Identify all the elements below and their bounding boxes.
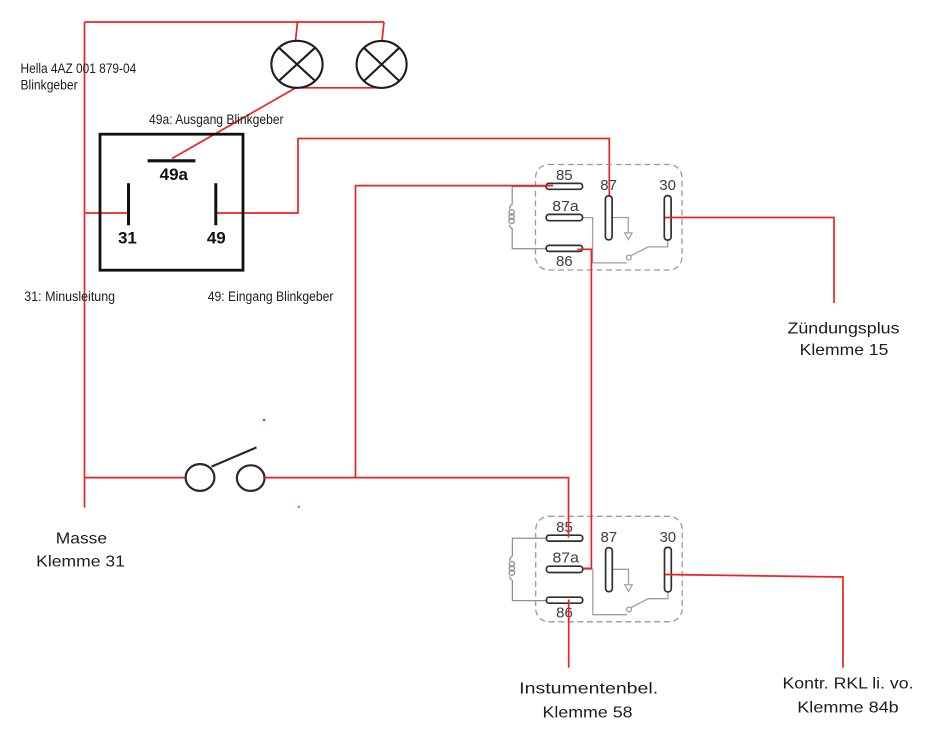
wire terminal 31 to Masse rail	[85, 212, 129, 214]
svg-text:Klemme 58: Klemme 58	[543, 705, 633, 722]
svg-text:30: 30	[659, 529, 676, 546]
relay K2 pin 87 pad	[606, 548, 613, 592]
svg-text:86: 86	[556, 253, 573, 270]
lamp E2	[357, 41, 407, 88]
relay K2 pin 30 pad	[665, 547, 672, 591]
wire Masse rail to switch S1	[85, 477, 187, 479]
relay K2 pin 85 pad	[546, 535, 582, 541]
relay K1 armature arrowhead	[625, 233, 633, 240]
relay K2 pivot contact	[627, 607, 632, 612]
relay K2 wire 87a to pivot	[583, 569, 627, 614]
relay K1 wire 87 to armature arrow	[612, 218, 628, 233]
relay K1 pin 85 pad	[546, 183, 582, 189]
svg-text:Instumentenbel.: Instumentenbel.	[519, 681, 658, 698]
wire relay K2 pin 86 to Klemme 58	[568, 600, 570, 668]
svg-text:30: 30	[659, 177, 676, 194]
svg-text:Masse: Masse	[56, 531, 107, 548]
svg-text:85: 85	[556, 519, 573, 536]
wire relay K2 pin 30 to Klemme 84b	[665, 575, 843, 668]
svg-text:87: 87	[600, 529, 617, 546]
wire switch junction to relay K1 pin 85	[356, 186, 554, 478]
svg-text:49a: 49a	[160, 165, 189, 184]
wire drop to lamp E2	[382, 22, 384, 41]
relay K1 pin 86 pad	[546, 245, 582, 251]
relay K1 switch arm to pin 30	[631, 240, 668, 256]
red artifact dot A	[263, 419, 266, 421]
switch S1	[186, 447, 265, 491]
relay K2 switch arm to pin 30	[631, 592, 668, 608]
terminal bar 31	[127, 183, 130, 225]
svg-text:31: Minusleitung: 31: Minusleitung	[24, 289, 115, 304]
svg-text:Hella 4AZ 001 879-04: Hella 4AZ 001 879-04	[21, 61, 137, 76]
relay K2 dashed body	[536, 516, 683, 622]
relay K1 coil	[509, 187, 546, 249]
svg-text:Blinkgeber: Blinkgeber	[21, 78, 79, 93]
relay K1 pin 87a pad	[546, 214, 582, 220]
wire drop to lamp E1	[296, 22, 298, 41]
relay K2 pin 86 pad	[546, 597, 582, 603]
relay K1 pivot contact	[626, 255, 631, 260]
svg-text:49: Eingang Blinkgeber: 49: Eingang Blinkgeber	[208, 289, 334, 304]
wire lamp bottoms join	[296, 87, 385, 89]
svg-text:31: 31	[118, 229, 137, 248]
relay K2	[509, 516, 682, 622]
relay K2 armature arrowhead	[625, 585, 633, 592]
svg-text:85: 85	[556, 167, 573, 184]
relay K1 pin 30 pad	[664, 196, 671, 240]
wire switch S1 to relay K2 pin 85	[264, 478, 568, 538]
relay K2 pin 87a pad	[546, 566, 582, 572]
svg-text:Klemme 31: Klemme 31	[36, 554, 125, 571]
wire lamp E1 to terminal 49a	[172, 88, 296, 159]
terminal bar 49a	[148, 159, 196, 162]
wire left vertical to Masse	[84, 22, 86, 508]
Blinkgeber box outline	[100, 134, 243, 270]
relay K1	[509, 165, 682, 271]
relay K2 coil	[509, 538, 546, 600]
svg-text:Zündungsplus: Zündungsplus	[788, 321, 900, 338]
svg-text:49a: Ausgang Blinkgeber: 49a: Ausgang Blinkgeber	[149, 112, 284, 127]
svg-text:87a: 87a	[552, 198, 579, 215]
relay K1 pin 87 pad	[605, 196, 612, 240]
wire terminal 49 to relay K1 pin 87	[216, 139, 610, 214]
svg-text:Kontr. RKL li. vo.: Kontr. RKL li. vo.	[783, 676, 914, 693]
wire relay K1 pin 30 to Zuendungsplus	[665, 218, 834, 304]
wire top horizontal feed	[85, 21, 385, 23]
terminal bar 49	[214, 183, 217, 225]
svg-text:Klemme 84b: Klemme 84b	[797, 700, 899, 717]
svg-text:Klemme 15: Klemme 15	[800, 342, 889, 359]
svg-text:87: 87	[600, 177, 617, 194]
lamp E1	[271, 41, 322, 88]
svg-text:87a: 87a	[552, 550, 579, 567]
svg-text:86: 86	[556, 605, 573, 622]
wire relay K1 pin 86 to relay K2 pin 87a	[578, 249, 592, 568]
relay K1 dashed body	[536, 165, 683, 271]
svg-text:49: 49	[207, 229, 226, 248]
red artifact dot B	[298, 506, 300, 508]
relay K1 wire 87a to pivot	[583, 218, 627, 263]
relay K2 wire 87 to armature arrow	[612, 569, 628, 584]
